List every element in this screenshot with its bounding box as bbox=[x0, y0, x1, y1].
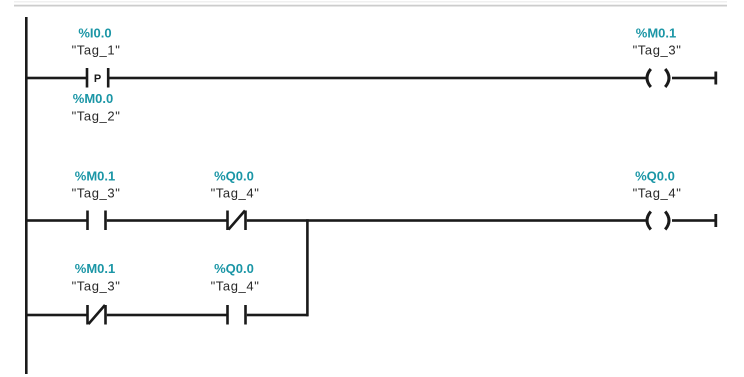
svg-text:"Tag_4": "Tag_4" bbox=[211, 186, 260, 201]
svg-text:"Tag_3": "Tag_3" bbox=[72, 279, 121, 294]
network separator line bbox=[14, 1, 727, 2]
svg-text:%I0.0: %I0.0 bbox=[78, 26, 111, 41]
wire branch: contact T4 to contact T5 bbox=[107, 314, 227, 317]
right terminal tick rung1 bbox=[714, 72, 717, 85]
svg-text:%Q0.0: %Q0.0 bbox=[635, 169, 675, 184]
svg-text:%M0.1: %M0.1 bbox=[75, 261, 115, 276]
wire rung2: rail to contact T2 bbox=[26, 219, 87, 222]
svg-text:%M0.1: %M0.1 bbox=[636, 26, 676, 41]
svg-text:"Tag_1": "Tag_1" bbox=[72, 43, 121, 58]
wire branch: contact T5 to branch junction bbox=[247, 314, 308, 317]
coil C2: output coil %Q0.0 bbox=[647, 212, 669, 230]
wire rung1: coil C1 to right terminal bbox=[672, 77, 716, 80]
coil C1: output coil %M0.1 bbox=[647, 69, 669, 87]
branch junction riser (vertical connector to rung2) bbox=[306, 219, 309, 316]
wire rung2: coil C2 to right terminal bbox=[672, 219, 716, 222]
contact T2: NO contact %M0.1 bbox=[86, 211, 107, 231]
contact T5: NO contact %Q0.0 bbox=[226, 305, 247, 325]
svg-text:"Tag_2": "Tag_2" bbox=[72, 109, 121, 124]
wire rung1: contact T1 to coil C1 bbox=[109, 77, 646, 80]
svg-text:%Q0.0: %Q0.0 bbox=[214, 261, 254, 276]
svg-text:"Tag_4": "Tag_4" bbox=[633, 186, 682, 201]
contact T1: P-edge contact %I0.0 bbox=[86, 68, 110, 88]
svg-text:%M0.0: %M0.0 bbox=[73, 91, 113, 106]
contact T4: NC contact %M0.1 bbox=[86, 305, 107, 325]
wire rung2: contact T2 to contact T3 bbox=[107, 219, 227, 222]
contact T3: NC contact %Q0.0 bbox=[226, 211, 247, 231]
wire rung2: contact T3 to coil C2 bbox=[247, 219, 646, 222]
wire branch: rail to contact T4 bbox=[26, 314, 87, 317]
svg-text:%M0.1: %M0.1 bbox=[75, 169, 115, 184]
svg-text:P: P bbox=[94, 73, 101, 85]
svg-text:"Tag_3": "Tag_3" bbox=[633, 43, 682, 58]
svg-text:"Tag_4": "Tag_4" bbox=[211, 279, 260, 294]
power rail (left bus bar) bbox=[25, 17, 28, 374]
svg-text:"Tag_3": "Tag_3" bbox=[72, 186, 121, 201]
wire rung1: rail to contact T1 bbox=[26, 77, 87, 80]
right terminal tick rung2 bbox=[714, 214, 717, 227]
svg-text:%Q0.0: %Q0.0 bbox=[214, 169, 254, 184]
